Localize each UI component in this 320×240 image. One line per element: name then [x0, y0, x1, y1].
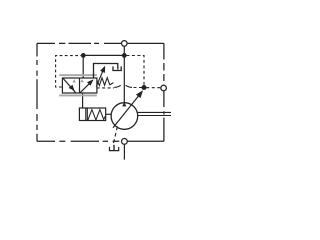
suction stub below port S — [123, 144, 125, 159]
wire: main pressure line — [123, 46, 125, 103]
case drain (dashed) to tank — [113, 126, 117, 144]
gray arrowhead right square — [80, 79, 83, 82]
pilot line (dashed) spring chamber drain with hop over pressure line — [97, 87, 114, 89]
linkage fork — [113, 66, 121, 70]
gray bar above valve — [59, 74, 97, 76]
drive shaft double line — [138, 112, 172, 115]
dashed box around control valve assembly — [56, 56, 84, 87]
pilot line (dashed) from pressure tap to control junction — [126, 56, 144, 86]
piston plate — [86, 108, 88, 121]
node: junction dot on pressure line — [122, 53, 127, 58]
mechanical feedback linkage — [94, 64, 118, 78]
pump variable displacement arrow — [113, 96, 138, 128]
gray bar below valve — [59, 95, 97, 97]
stroking piston cylinder — [79, 108, 105, 121]
port S (bottom) — [122, 139, 128, 145]
compensator valve U1 body — [62, 78, 97, 93]
valve divider — [79, 78, 81, 93]
gray arrowhead left square — [73, 79, 76, 82]
pump outlet triangle — [122, 102, 126, 106]
port X (right) — [161, 85, 167, 91]
wire: valve bottom to stroking piston — [82, 93, 84, 108]
node: junction dot on pilot line at valve — [81, 53, 86, 58]
rod to pump — [106, 113, 112, 115]
tank symbol — [110, 147, 119, 151]
wire: pilot line (solid) from valve to pressure line — [83, 54, 124, 56]
port B (top) — [122, 41, 128, 47]
adjustable spring on valve — [97, 78, 114, 86]
piston spring — [88, 110, 106, 120]
enclosure boundary (chain line) — [37, 43, 164, 141]
spring adjustment arrow — [96, 71, 103, 87]
pump P1 circle — [111, 103, 138, 130]
pilot line (dashed) stub to port X — [146, 87, 161, 89]
node: control junction dot — [142, 85, 147, 90]
wire: pilot drop into valve top — [82, 55, 84, 78]
tank pipe — [113, 145, 115, 151]
left square flow arrow — [63, 79, 76, 93]
right square flow arrow — [80, 80, 93, 93]
